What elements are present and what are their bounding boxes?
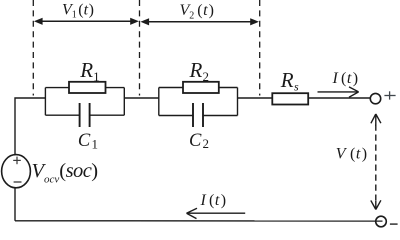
svg-text:R: R [189, 58, 203, 82]
resistor R2 [183, 82, 219, 93]
wire: RC1 to RC2 [124, 97, 159, 99]
V1(t) measurement arrow [34, 18, 139, 25]
wire: RC2 bottom branch right [203, 115, 238, 117]
V(t) dashed measurement arrow [371, 114, 381, 210]
wire: RC1 right edge [123, 88, 125, 116]
plus sign inside source [13, 157, 21, 165]
dashed node line left (x=33) [32, 0, 34, 96]
wire: RC1 bottom branch left [45, 114, 79, 116]
minus sign inside source [14, 181, 22, 183]
dashed node line middle (x=139.5) [139, 0, 141, 96]
svg-text:V(t): V(t) [336, 146, 367, 163]
svg-text:I(t): I(t) [332, 70, 359, 87]
svg-text:s: s [294, 79, 299, 93]
svg-text:I(t): I(t) [200, 192, 227, 209]
svg-text:2: 2 [203, 69, 210, 84]
V2(t) measurement arrow [140, 18, 259, 25]
current arrow I(t) top [318, 87, 359, 97]
resistor Rs [272, 93, 308, 104]
negative terminal [376, 216, 387, 227]
wire: RC2 bottom branch left [159, 115, 193, 117]
svg-text:R: R [280, 68, 294, 92]
svg-text:V1(t): V1(t) [62, 1, 94, 20]
plus sign at positive terminal [384, 91, 395, 99]
wire: source top to RC1 [15, 98, 45, 155]
voltage source Vocv [2, 155, 31, 188]
wire: RC2 top branch [159, 87, 238, 89]
positive terminal [370, 93, 380, 103]
svg-text:1: 1 [93, 69, 100, 84]
wire: RC2 left edge [158, 88, 160, 116]
resistor R1 [69, 82, 106, 93]
wire: RC2 to Rs [238, 97, 273, 99]
RC branch 2 loop [159, 88, 238, 116]
wire: RC1 bottom branch right [90, 114, 125, 116]
minus sign at negative terminal [390, 223, 398, 225]
svg-text:V2(t): V2(t) [180, 2, 214, 21]
RC branch 1 loop [45, 88, 124, 116]
wire: source bottom to bottom rail [14, 188, 16, 221]
dashed node line right (x=259.7) [259, 0, 261, 96]
wire: RC2 right edge [237, 88, 239, 116]
wire: Rs to positive terminal [308, 97, 370, 99]
capacitor C2 [193, 103, 203, 127]
svg-text:Vocv(soc): Vocv(soc) [32, 160, 99, 185]
svg-text:2: 2 [203, 136, 210, 151]
wire: RC1 top branch [45, 87, 124, 89]
svg-text:R: R [79, 58, 93, 82]
wire: bottom return rail [15, 220, 383, 222]
svg-text:1: 1 [92, 137, 99, 152]
svg-text:C: C [78, 131, 91, 151]
current arrow I(t) bottom [187, 208, 246, 218]
svg-text:C: C [189, 131, 202, 151]
capacitor C1 [80, 103, 90, 127]
wire: RC1 left edge [44, 88, 46, 116]
